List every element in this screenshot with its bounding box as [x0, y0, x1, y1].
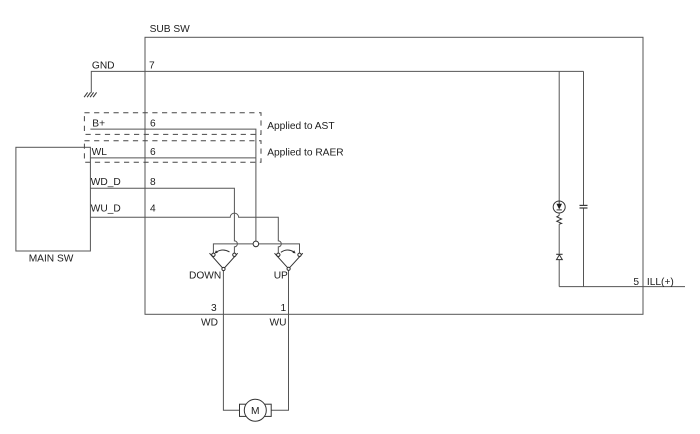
svg-text:Applied to RAER: Applied to RAER: [267, 148, 343, 159]
svg-text:M: M: [251, 406, 260, 417]
svg-text:4: 4: [150, 204, 156, 215]
svg-text:7: 7: [149, 60, 155, 71]
svg-text:6: 6: [150, 147, 156, 158]
svg-text:1: 1: [281, 303, 287, 314]
svg-text:UP: UP: [274, 271, 288, 282]
svg-text:B+: B+: [92, 118, 105, 129]
svg-text:6: 6: [150, 118, 156, 129]
svg-text:GND: GND: [92, 60, 115, 71]
svg-text:WD: WD: [201, 317, 218, 328]
svg-text:5: 5: [633, 277, 639, 288]
svg-text:Applied to AST: Applied to AST: [267, 121, 334, 132]
svg-text:8: 8: [150, 177, 156, 188]
svg-text:SUB SW: SUB SW: [150, 24, 191, 35]
svg-text:WU: WU: [270, 317, 287, 328]
svg-text:ILL(+): ILL(+): [647, 277, 674, 288]
svg-text:3: 3: [211, 303, 217, 314]
svg-text:MAIN SW: MAIN SW: [29, 254, 74, 265]
svg-text:WD_D: WD_D: [91, 177, 121, 188]
svg-text:WU_D: WU_D: [91, 204, 121, 215]
svg-text:DOWN: DOWN: [189, 271, 221, 282]
svg-text:WL: WL: [92, 147, 108, 158]
